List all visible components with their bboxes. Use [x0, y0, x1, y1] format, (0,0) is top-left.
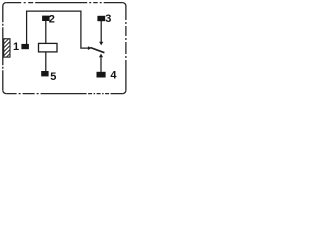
wire: pin1 up, across top, down to fixed contact	[27, 11, 89, 48]
terminal square pin 2	[42, 16, 50, 21]
wire: coil down to pin5	[45, 52, 47, 71]
svg-text:3: 3	[105, 13, 111, 25]
wire: pin2 down to coil	[45, 21, 47, 44]
arrowhead up (pin4 side)	[99, 54, 103, 58]
movable contact blade (diagonal)	[90, 48, 104, 53]
case outline right edge	[125, 6, 127, 90]
svg-text:5: 5	[50, 71, 56, 83]
case outline top edge	[6, 2, 122, 4]
fixed contact arrowhead	[88, 46, 92, 50]
arrowhead down (pin3 side)	[99, 42, 103, 46]
terminal square pin 1	[21, 44, 29, 49]
wire: pin3 down	[100, 21, 102, 42]
coil (rectangle)	[39, 43, 58, 52]
terminal square pin 4	[97, 72, 106, 78]
svg-text:4: 4	[110, 70, 117, 82]
case outline corner BL	[3, 90, 6, 93]
case outline corner BR	[123, 90, 126, 93]
terminal square pin 5	[41, 71, 48, 76]
hatched mounting boss on left wall	[0, 37, 30, 59]
case outline corner TR	[123, 3, 126, 6]
case outline bottom edge	[6, 93, 122, 95]
svg-text:1: 1	[13, 41, 19, 53]
wire: pin4 up	[100, 57, 102, 72]
case outline left edge	[2, 6, 4, 90]
svg-text:2: 2	[49, 14, 55, 26]
terminal square pin 3	[97, 16, 105, 21]
case outline (chain line rounded border) corner TL	[3, 3, 6, 6]
background	[0, 0, 130, 98]
